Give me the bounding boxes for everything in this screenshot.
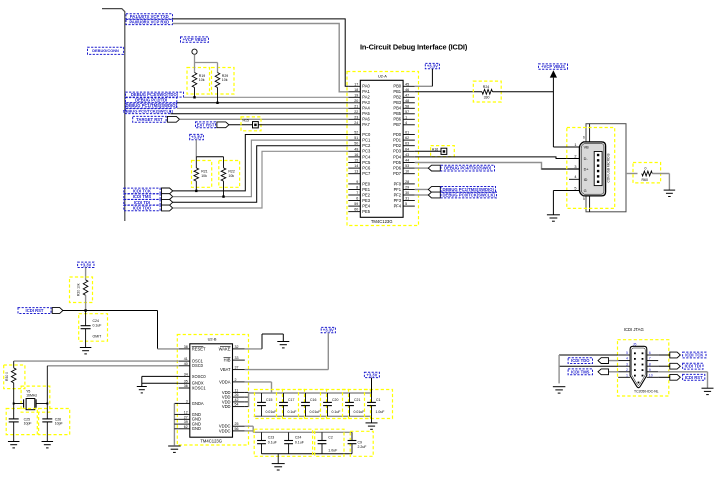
- wire USB shell to R60: [626, 173, 638, 175]
- power +3.3V label (VBAT): [321, 327, 335, 332]
- wire lower cap bank bottom bus: [262, 453, 353, 455]
- svg-text:+VCP VBUS: +VCP VBUS: [541, 64, 565, 69]
- power +VCP VBUS label (USB): [539, 64, 568, 69]
- pin 7 PE2: [348, 194, 360, 196]
- svg-text:4: 4: [574, 175, 576, 179]
- node DEBUG PC1/TMS(SWDIO) label: [441, 187, 496, 193]
- pin 60 PE5: [348, 211, 360, 213]
- pin 35 GNDX: [179, 382, 190, 384]
- wire VBUS down to USB VB pin: [552, 78, 554, 147]
- wire R22 to ICDI TMS: [223, 181, 225, 197]
- pin 25 VDDC: [233, 425, 245, 427]
- svg-text:PC7: PC7: [362, 171, 371, 176]
- svg-text:DEBUG/CONN: DEBUG/CONN: [92, 48, 119, 53]
- svg-text:29: 29: [405, 185, 409, 189]
- wire PB0 to +3.3V: [415, 85, 433, 87]
- pin 5 J5 left: [618, 354, 630, 356]
- svg-text:51: 51: [354, 136, 358, 140]
- capacitor C26 yellow box: [39, 409, 70, 435]
- svg-text:C20: C20: [332, 398, 338, 402]
- svg-text:+3.3V: +3.3V: [80, 262, 91, 267]
- ground J5 right: [702, 387, 714, 389]
- svg-text:42: 42: [235, 398, 239, 402]
- svg-text:0.1uF: 0.1uF: [93, 323, 102, 327]
- capacitor C17 yellow box: [277, 390, 305, 419]
- svg-text:1.0uF: 1.0uF: [376, 410, 385, 414]
- svg-text:10: 10: [405, 170, 409, 174]
- svg-text:41: 41: [184, 357, 188, 361]
- wire J5 ground rail: [558, 355, 560, 383]
- node ICDI RST arrow: [52, 308, 63, 314]
- svg-text:PE3: PE3: [362, 198, 370, 203]
- svg-text:ICDI TDI: ICDI TDI: [685, 364, 701, 369]
- svg-text:ICDI TCK: ICDI TCK: [133, 188, 151, 193]
- op-amp U2-A yellow courtyard box: [347, 72, 419, 226]
- svg-text:ICDI TCK: ICDI TCK: [685, 353, 703, 358]
- pin 44 PD5: [403, 162, 415, 164]
- svg-text:PB4: PB4: [393, 106, 401, 111]
- svg-text:PB0: PB0: [393, 84, 401, 89]
- svg-text:52: 52: [354, 131, 358, 135]
- svg-text:0: 0: [645, 167, 647, 171]
- capacitor C15 yellow box: [255, 390, 283, 419]
- svg-text:PA3: PA3: [362, 100, 370, 105]
- svg-text:8: 8: [649, 362, 651, 366]
- jumper H15: [253, 122, 259, 128]
- svg-text:PF1: PF1: [394, 187, 402, 192]
- svg-text:53: 53: [405, 164, 409, 168]
- node ICDI RST arrow (J5): [658, 376, 670, 378]
- wire WAKE to ground: [245, 348, 262, 350]
- svg-text:36: 36: [184, 384, 188, 388]
- resistor R24 yellow box: [473, 81, 501, 102]
- wire VCP TXD to PA0: [173, 19, 349, 86]
- wire XOSC0 to ground: [142, 375, 179, 377]
- svg-text:C23: C23: [268, 436, 274, 440]
- crystal Y5 yellow box: [21, 386, 50, 412]
- svg-text:1: 1: [626, 373, 628, 377]
- wire OSC1 net: [14, 360, 179, 362]
- pin 36 XOSC1: [179, 387, 190, 389]
- pin 23 PA6: [348, 118, 360, 120]
- svg-text:PD1: PD1: [393, 138, 402, 143]
- svg-text:40: 40: [184, 362, 188, 366]
- wire USB GND down: [552, 191, 554, 215]
- wire OSC0 net: [47, 365, 178, 367]
- svg-text:0.1uF: 0.1uF: [288, 410, 297, 414]
- svg-text:ICDI TMS: ICDI TMS: [133, 194, 152, 199]
- svg-text:VDDA: VDDA: [219, 379, 231, 384]
- svg-text:31: 31: [405, 197, 409, 201]
- svg-text:PB2: PB2: [393, 95, 401, 100]
- pin 15 PC5: [348, 162, 360, 164]
- svg-text:PF0: PF0: [394, 181, 402, 186]
- node ICDI TDI arrow (J5): [658, 365, 670, 367]
- svg-text:58: 58: [405, 104, 409, 108]
- svg-text:57: 57: [405, 110, 409, 114]
- svg-text:39: 39: [184, 420, 188, 424]
- svg-text:5: 5: [583, 197, 585, 201]
- wire ICDI TDI to U2-A: [173, 146, 349, 203]
- svg-text:5: 5: [574, 186, 576, 190]
- pin 3 GNDA: [179, 402, 190, 404]
- junction R22/ICDI TMS: [222, 195, 224, 197]
- node TARGET RST arrow: [167, 116, 179, 122]
- svg-text:C17: C17: [288, 398, 294, 402]
- pin 43 PD4: [403, 156, 415, 158]
- svg-text:26: 26: [235, 393, 239, 397]
- svg-text:PC6: PC6: [362, 166, 371, 171]
- svg-text:PD6: PD6: [393, 166, 402, 171]
- svg-text:34: 34: [184, 372, 188, 376]
- ground C25: [8, 441, 20, 443]
- wire top cap bank bottom bus: [254, 415, 372, 417]
- pin 2 VDDA: [233, 381, 245, 383]
- connector J5 body TC2050: [630, 346, 647, 387]
- node EXT RST arrow: [217, 122, 229, 128]
- wire VDDC bus to caps: [253, 431, 352, 433]
- svg-text:43: 43: [405, 153, 409, 157]
- wire GND pins to rail: [174, 413, 178, 415]
- svg-text:H15: H15: [243, 118, 249, 122]
- svg-text:0.01uF: 0.01uF: [266, 410, 277, 414]
- pin 16 PC4: [348, 156, 360, 158]
- wire PD3 to H16: [415, 150, 441, 152]
- capacitor C21 yellow box: [343, 390, 371, 419]
- resistor R24: [482, 89, 493, 94]
- crystal Y5: [14, 403, 24, 405]
- wire R19 to PA2 net: [194, 88, 196, 98]
- pin 64 PD3: [403, 150, 415, 152]
- node ICDI TDI arrow: [162, 199, 173, 205]
- pin 6 PE3: [348, 200, 360, 202]
- svg-text:20: 20: [354, 99, 358, 103]
- pin 6 J5 right: [647, 354, 658, 356]
- node DEBUG PC1/TMS(SWDIO) label: [126, 103, 177, 108]
- pin 54 VDD: [233, 406, 245, 408]
- svg-text:1: 1: [405, 115, 407, 119]
- svg-text:DEBUG PC0/TCK(SWCLK): DEBUG PC0/TCK(SWCLK): [443, 193, 496, 198]
- pin 8 J5 right: [647, 365, 658, 367]
- pin 52 PC0: [348, 134, 360, 136]
- wire EXT RST to H15: [229, 124, 253, 126]
- wire J5 pin9 to ground: [658, 371, 707, 373]
- wire R29 to PA3 net: [217, 88, 219, 103]
- ground C26: [42, 441, 54, 443]
- svg-text:PC3: PC3: [362, 149, 371, 154]
- svg-text:4: 4: [405, 121, 407, 125]
- pin 40 OSC0: [179, 365, 190, 367]
- capacitor C24 yellow box: [79, 314, 108, 342]
- ground R60: [664, 189, 676, 191]
- svg-text:ICDI RST: ICDI RST: [685, 375, 703, 380]
- svg-text:C25: C25: [24, 417, 30, 421]
- op-amp U2-B body TM4C123G: [190, 344, 233, 437]
- node ICDI TDI label: [124, 200, 160, 206]
- pin 5 PF4: [403, 205, 415, 207]
- svg-text:44: 44: [405, 159, 409, 163]
- svg-text:27: 27: [184, 415, 188, 419]
- svg-text:OMIT: OMIT: [93, 334, 103, 338]
- svg-text:330: 330: [484, 95, 490, 99]
- svg-text:3: 3: [186, 399, 188, 403]
- svg-text:0.01uF: 0.01uF: [310, 410, 321, 414]
- power VBUS circle symbol: [192, 49, 197, 54]
- connector J5 yellow box: [618, 340, 669, 396]
- node ICDI TCK arrow (J5): [658, 354, 670, 356]
- node ICDI TMS arrow: [162, 194, 173, 200]
- power +3.3V label (cap bank): [364, 372, 379, 377]
- svg-text:PC5: PC5: [362, 160, 371, 165]
- svg-text:45: 45: [405, 82, 409, 86]
- ground U2-B GND rail: [168, 445, 181, 447]
- wire VBAT to +3.3V: [327, 333, 329, 370]
- pin 27 GND: [179, 418, 190, 420]
- node ICDI TDO arrow (J5): [609, 360, 619, 362]
- capacitor C15: [261, 393, 263, 402]
- pin 57 PB5: [403, 113, 415, 115]
- svg-text:C15: C15: [266, 398, 272, 402]
- svg-text:PB5: PB5: [393, 111, 401, 116]
- svg-text:PE1: PE1: [362, 187, 370, 192]
- resistor R22: [223, 157, 225, 168]
- svg-text:DEBUG PC4/TDO(SWO): DEBUG PC4/TDO(SWO): [444, 166, 492, 171]
- svg-text:2: 2: [626, 368, 628, 372]
- node DEBUG PC4/TDO(SWO) label: [441, 165, 495, 171]
- node DEBUG PC0 arrow (PF2): [415, 194, 429, 196]
- svg-text:ICDI TDO: ICDI TDO: [133, 206, 152, 211]
- svg-text:PA5: PA5: [362, 111, 370, 116]
- svg-text:PD5: PD5: [393, 160, 402, 165]
- svg-text:R21: R21: [201, 170, 207, 174]
- svg-text:PB3: PB3: [393, 100, 401, 105]
- svg-text:ICDI RST: ICDI RST: [26, 308, 44, 313]
- svg-text:U2-B: U2-B: [208, 337, 217, 342]
- pin 12 GND: [179, 413, 190, 415]
- svg-text:PC0: PC0: [362, 132, 371, 137]
- pin 31 PF3: [403, 200, 415, 202]
- capacitor C24: [85, 311, 87, 326]
- svg-text:12: 12: [184, 410, 188, 414]
- svg-text:PF4: PF4: [394, 204, 402, 209]
- ground XOSC: [137, 386, 147, 388]
- pin 37 VBAT: [233, 369, 245, 371]
- junction R21/ICDI TCK: [195, 190, 197, 192]
- pin 2 J5 left: [618, 371, 630, 373]
- svg-text:DEBUG PC0/TCK(SWCLK): DEBUG PC0/TCK(SWCLK): [123, 109, 174, 114]
- resistor R22 yellow box: [219, 161, 240, 188]
- svg-text:PE4: PE4: [362, 204, 370, 209]
- pin 26 VDD: [233, 396, 245, 398]
- node ICDI TDI label (J5): [683, 363, 703, 369]
- svg-text:23: 23: [354, 115, 358, 119]
- pin 56 VDDC: [233, 430, 245, 432]
- svg-text:TARGET RST: TARGET RST: [136, 117, 163, 122]
- ground top cap bank: [371, 416, 373, 423]
- pin 63 PD2: [403, 145, 415, 147]
- svg-text:13: 13: [354, 170, 358, 174]
- svg-text:2: 2: [235, 378, 237, 382]
- svg-text:DEBUG PC2/TDI: DEBUG PC2/TDI: [135, 98, 167, 103]
- pin 29 PF1: [403, 188, 415, 190]
- svg-text:PC4: PC4: [362, 154, 371, 159]
- svg-text:47: 47: [405, 93, 409, 97]
- pin 21 PA4: [348, 107, 360, 109]
- svg-text:PE2: PE2: [362, 192, 370, 197]
- node ICDI TDO label (J5): [568, 358, 592, 364]
- wire VDDC rail: [245, 425, 253, 427]
- svg-text:2.2uF: 2.2uF: [358, 445, 367, 449]
- capacitor C26: [46, 404, 48, 419]
- pin 53 PD6: [403, 167, 415, 169]
- svg-text:Y5: Y5: [26, 389, 30, 393]
- pin 4 J5 left: [618, 360, 630, 362]
- pin 48 PB3: [403, 102, 415, 104]
- junction R29/PA3: [216, 102, 218, 104]
- svg-text:C21: C21: [354, 398, 360, 402]
- svg-text:PB7: PB7: [393, 122, 401, 127]
- svg-text:PA1: PA1: [362, 89, 370, 94]
- svg-text:PD4: PD4: [393, 154, 402, 159]
- svg-text:VDD: VDD: [222, 404, 231, 409]
- wire H15 to PA7: [258, 124, 348, 126]
- svg-text:OSC0: OSC0: [192, 363, 204, 368]
- svg-text:ICDI JTAG: ICDI JTAG: [624, 327, 644, 332]
- ground J5 left: [553, 386, 566, 388]
- connector CON1 contact block: [594, 152, 602, 186]
- capacitor C23: [261, 432, 263, 440]
- pin 9 PE0: [348, 183, 360, 185]
- svg-text:10k: 10k: [228, 174, 234, 178]
- pin 39 GND: [179, 423, 190, 425]
- svg-text:VB: VB: [584, 145, 590, 149]
- wire R60 to ground: [652, 173, 669, 175]
- pin 32 WAKE: [233, 348, 245, 350]
- capacitor C1 yellow box: [365, 390, 393, 419]
- jumper H16 yellow box: [431, 146, 455, 157]
- svg-text:3: 3: [626, 362, 628, 366]
- node EXT RST label: [196, 122, 216, 128]
- pin 62 GND: [179, 428, 190, 430]
- wire VDD rail: [245, 391, 249, 393]
- svg-text:0.1uF: 0.1uF: [295, 440, 304, 444]
- svg-text:PA1/U0TX VCP TXD: PA1/U0TX VCP TXD: [130, 14, 169, 19]
- resistor R20: [83, 280, 88, 295]
- node DEBUG/CONN port label: [88, 47, 124, 54]
- svg-text:PA6: PA6: [362, 117, 370, 122]
- pin 13 PC7: [348, 173, 360, 175]
- junction crystal right: [46, 403, 48, 405]
- svg-text:7: 7: [649, 357, 651, 361]
- resistor R30: [13, 361, 15, 368]
- svg-text:21: 21: [354, 104, 358, 108]
- pin 42 VDD: [233, 401, 245, 403]
- svg-text:PD7: PD7: [393, 171, 402, 176]
- svg-text:PB6: PB6: [393, 117, 401, 122]
- svg-text:C9: C9: [358, 440, 363, 444]
- capacitor C2 yellow box: [315, 429, 344, 456]
- ground USB shield: [547, 214, 560, 216]
- pin 18 PA1: [348, 91, 360, 93]
- connector CON1 shield pin top: [589, 124, 591, 142]
- svg-text:62: 62: [184, 425, 188, 429]
- wire GNDX to ground: [142, 382, 179, 384]
- svg-text:C24: C24: [295, 436, 301, 440]
- svg-text:11: 11: [235, 388, 239, 392]
- svg-text:54: 54: [235, 403, 239, 407]
- capacitor C20 yellow box: [321, 390, 349, 419]
- pin 17 PA0: [348, 85, 360, 87]
- capacitor C9: [351, 432, 353, 440]
- node ICDI TCK label: [124, 188, 160, 194]
- pin 10 PD7: [403, 173, 415, 175]
- pin 8 PE1: [348, 188, 360, 190]
- connector J5 pads: [634, 352, 636, 354]
- node TARGET RST label: [133, 116, 166, 122]
- pin 1 PB6: [403, 118, 415, 120]
- pin 46 PB1: [403, 91, 415, 93]
- svg-text:10k: 10k: [201, 174, 207, 178]
- svg-text:+VCP VBUS: +VCP VBUS: [183, 37, 207, 42]
- svg-text:PB1: PB1: [393, 89, 401, 94]
- svg-text:2: 2: [574, 154, 576, 158]
- svg-text:0.1uF: 0.1uF: [332, 410, 341, 414]
- wire DEBUG PC1/TMS(SWDIO) to PA4: [177, 107, 348, 109]
- resistor R19: [194, 63, 196, 73]
- svg-text:24: 24: [354, 121, 358, 125]
- svg-text:D+: D+: [584, 168, 590, 172]
- svg-text:48: 48: [405, 99, 409, 103]
- svg-text:8: 8: [356, 185, 358, 189]
- svg-text:PA2: PA2: [362, 95, 370, 100]
- svg-text:6: 6: [356, 197, 358, 201]
- capacitor C24: [288, 432, 290, 440]
- svg-text:C24: C24: [93, 319, 99, 323]
- node ICDI TMS label (J5): [568, 369, 592, 375]
- pin 3 J5 left: [618, 365, 630, 367]
- svg-text:TM4C123G: TM4C123G: [371, 219, 393, 224]
- resistor R60 yellow box: [633, 163, 661, 183]
- op-amp U2-B yellow courtyard box: [177, 335, 248, 446]
- jumper H16: [441, 148, 447, 154]
- svg-text:6: 6: [583, 136, 585, 140]
- pin 50 PC2: [348, 145, 360, 147]
- svg-text:17: 17: [354, 82, 358, 86]
- svg-text:PA0: PA0: [362, 84, 370, 89]
- junction crystal left: [13, 403, 15, 405]
- wire +3.3V to cap bank: [371, 378, 373, 393]
- node DEBUG PC0/TCK(SWCLK) label: [441, 192, 497, 198]
- capacitor C16: [305, 393, 307, 402]
- wire GNDA to ground rail: [174, 402, 178, 404]
- connector CON1 USB shell rect: [586, 124, 626, 212]
- ground lower cap bank: [277, 454, 279, 464]
- wire PD5 to USB D+: [415, 163, 580, 170]
- pin 58 PB4: [403, 107, 415, 109]
- node PA0/U0RX VCP RXD label: [126, 19, 173, 24]
- svg-text:XOSC1: XOSC1: [192, 385, 207, 390]
- pin 61 PD0: [403, 134, 415, 136]
- node DEBUG PC1 arrow (PF1): [415, 188, 429, 190]
- pin 47 PB2: [403, 96, 415, 98]
- wire +3.3V to R20: [85, 268, 87, 280]
- wire VDD bus to caps: [249, 392, 372, 394]
- wire sheet border bus: [102, 9, 125, 221]
- wire R30 to crystal: [13, 383, 15, 404]
- svg-text:U2-A: U2-A: [378, 74, 387, 79]
- svg-text:18: 18: [354, 88, 358, 92]
- pin 9 J5 right: [647, 371, 658, 373]
